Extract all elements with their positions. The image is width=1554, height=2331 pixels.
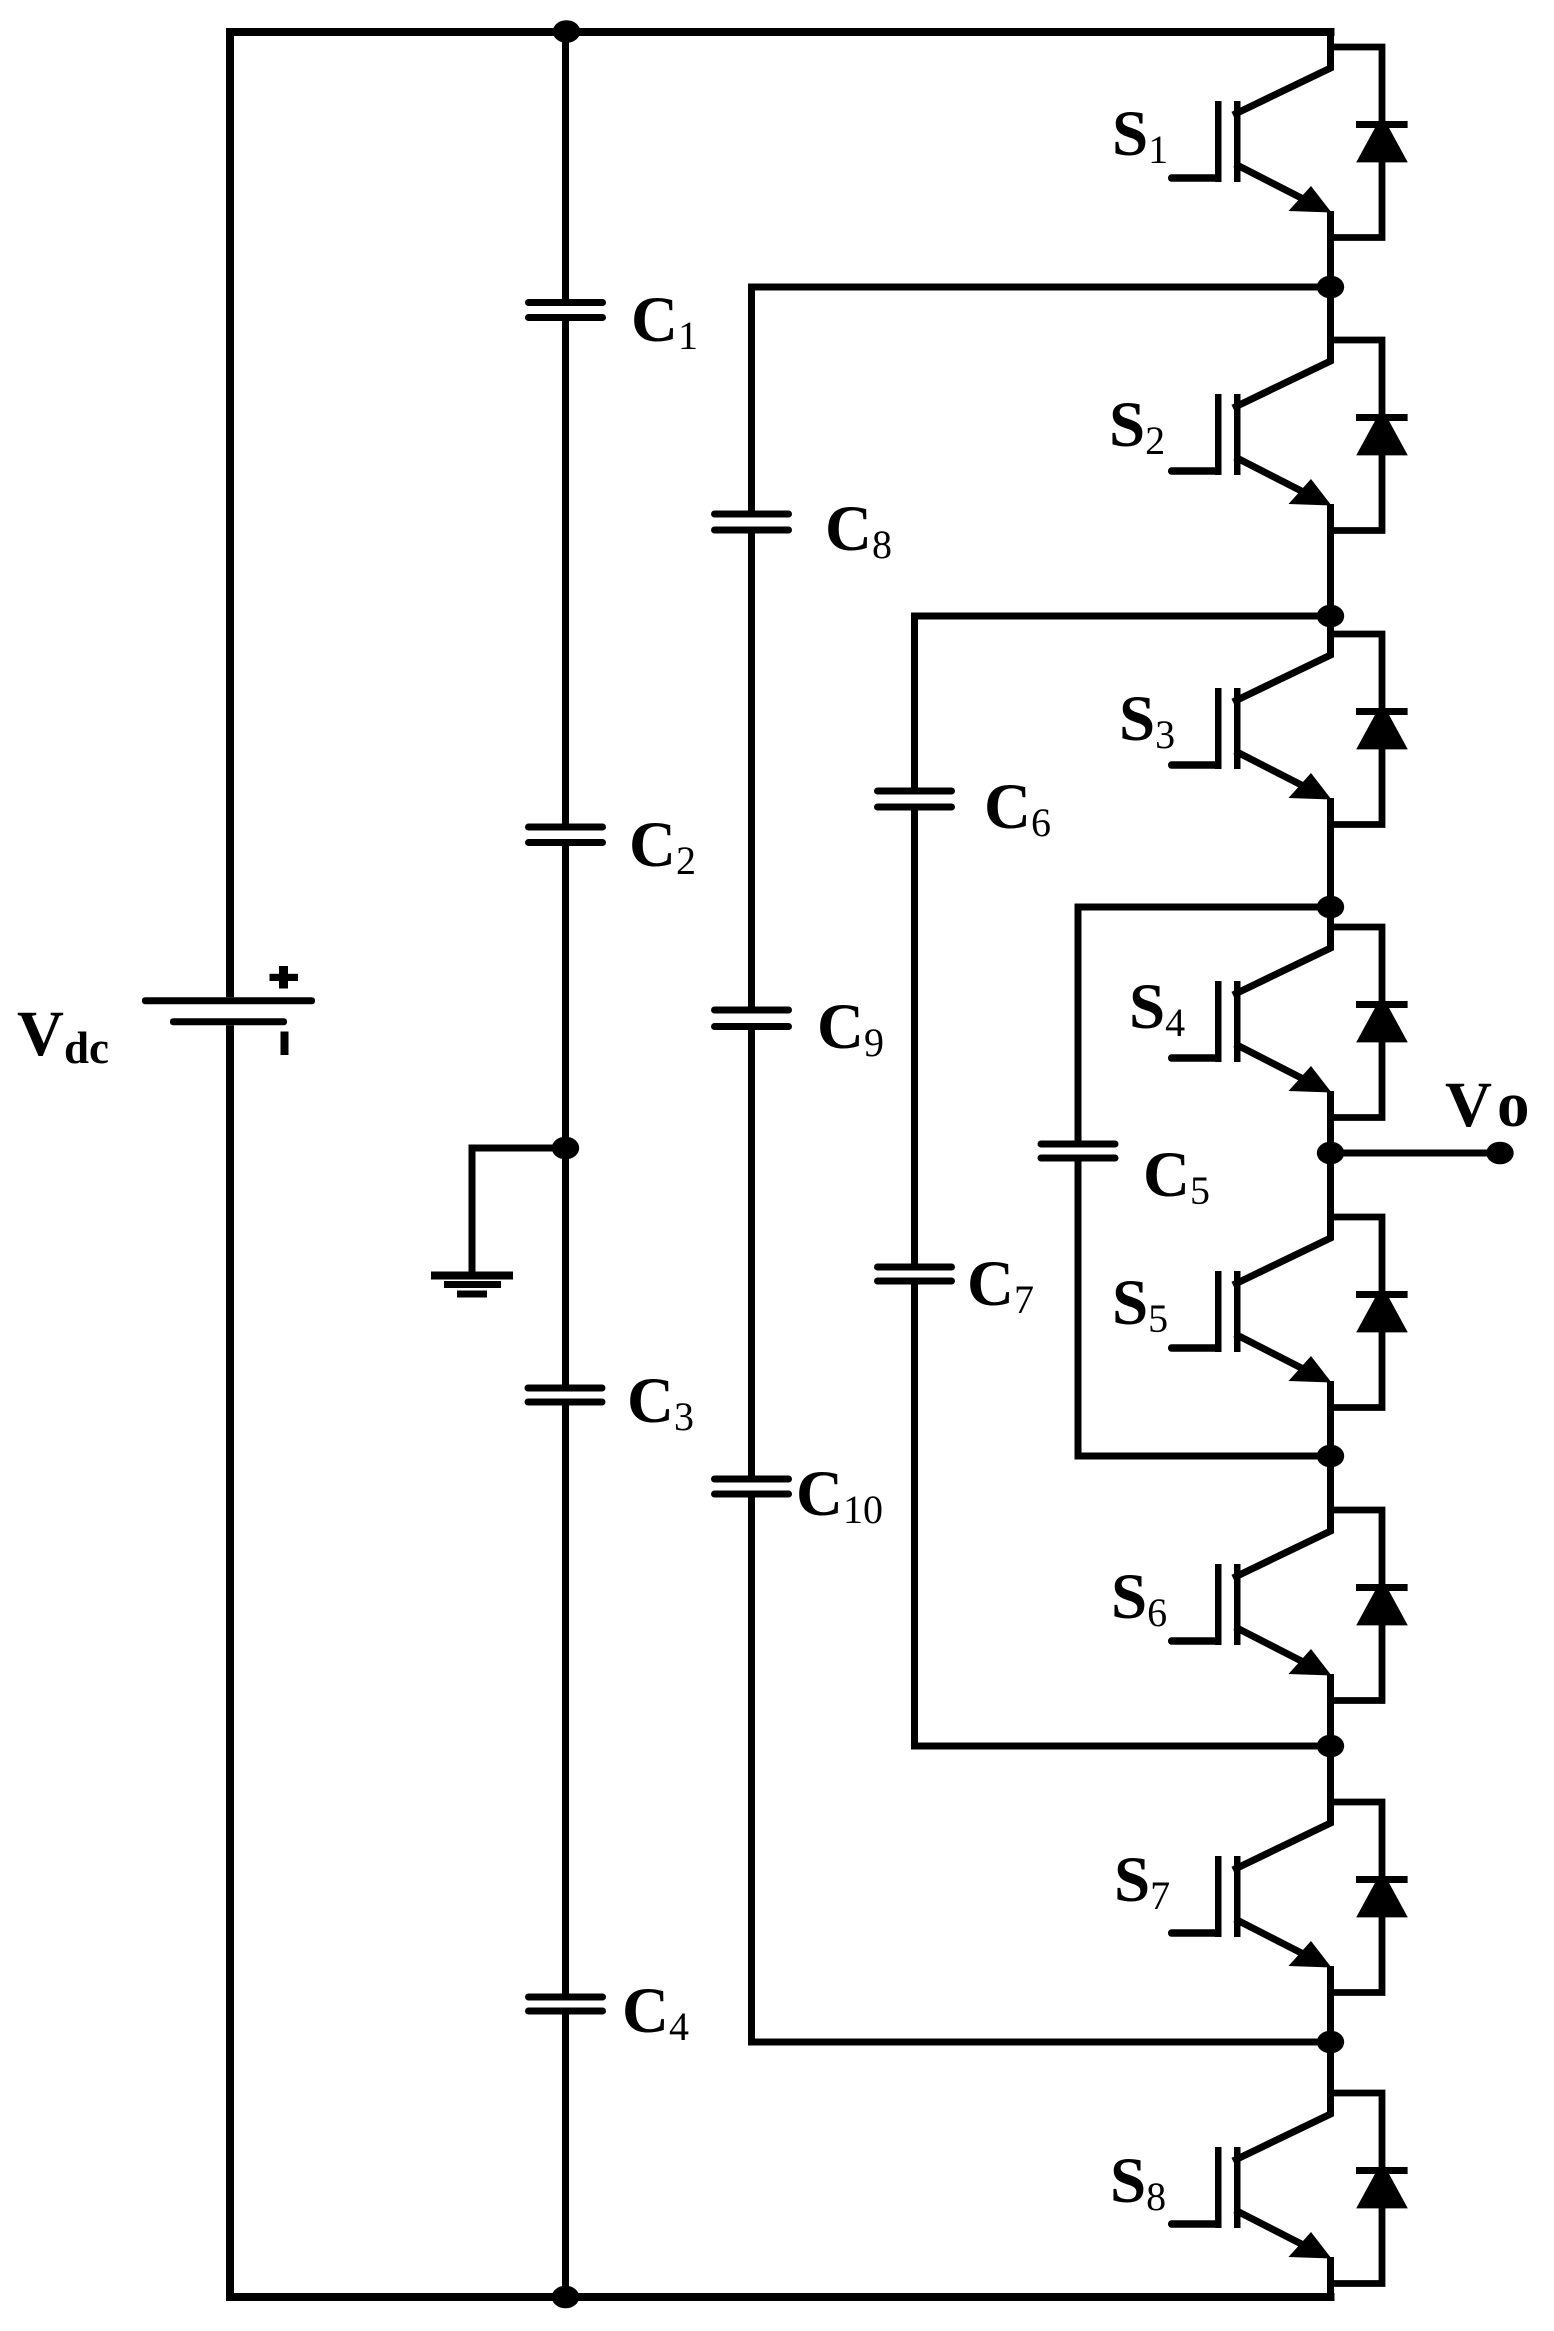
transistor S8 emitter arrowhead — [1289, 2232, 1332, 2259]
svg-text:C7: C7 — [967, 1248, 1034, 1322]
capacitor C9 top plate — [711, 1007, 792, 1014]
svg-text:S8: S8 — [1110, 2145, 1166, 2219]
transistor S3 emitter wire — [1235, 751, 1316, 793]
capacitor C6 top plate — [874, 788, 955, 795]
transistor S1 gate lead — [1168, 174, 1222, 182]
svg-text:C9: C9 — [817, 991, 884, 1065]
capacitor C3 bottom plate — [525, 1399, 606, 1406]
transistor S2 gate bar — [1215, 394, 1222, 475]
wire bus2 segment C3-to-C4 — [562, 1406, 569, 1994]
transistor S3 body bar — [1234, 688, 1241, 769]
svg-text:S7: S7 — [1114, 1844, 1170, 1918]
transistor S3 (IGBT): collector wire — [1233, 616, 1331, 702]
node S6-S7 (to C7 leg) — [1317, 1735, 1344, 1758]
wire ground horizontal from midpoint node — [469, 1145, 566, 1152]
transistor S8 gate lead — [1168, 2220, 1222, 2228]
wire bus5 segment C5-to-bottom — [1075, 1162, 1082, 1456]
diode D5 triangle — [1356, 1285, 1408, 1332]
transistor S7 gate lead — [1168, 1929, 1222, 1937]
capacitor C5 top plate — [1038, 1141, 1119, 1148]
svg-text:C6: C6 — [984, 771, 1051, 845]
svg-text:C5: C5 — [1143, 1139, 1210, 1213]
capacitor C10 bottom plate — [711, 1491, 792, 1498]
node top rail - bus2 junction — [553, 20, 580, 43]
transistor S1 (IGBT): collector wire — [1233, 32, 1331, 115]
diode D3 triangle — [1356, 702, 1408, 749]
transistor S2 emitter wire — [1235, 457, 1316, 499]
svg-text:Vo: Vo — [1445, 1069, 1529, 1141]
wire bus3 segment C10-to-bottom — [748, 1498, 755, 2043]
capacitor C7 top plate — [874, 1264, 955, 1271]
diode D3 antiparallel with S3: anode-cathode wires — [1331, 634, 1383, 712]
capacitor C5 bottom plate — [1038, 1155, 1119, 1162]
svg-text:S4: S4 — [1129, 971, 1185, 1045]
diode D6 triangle — [1356, 1578, 1408, 1625]
capacitor C3 top plate — [525, 1385, 606, 1392]
diode D4 antiparallel with S4: anode-cathode wires — [1331, 927, 1383, 1005]
svg-text:S6: S6 — [1111, 1561, 1167, 1635]
transistor S5 emitter arrowhead — [1289, 1356, 1332, 1383]
diode D7 triangle — [1356, 1870, 1408, 1917]
capacitor C4 bottom plate — [525, 2008, 606, 2015]
svg-text:C4: C4 — [622, 1975, 689, 2049]
diode D8 antiparallel with S8: anode-cathode wires — [1331, 2093, 1383, 2171]
wire bus4 top horizontal to S2-S3 node — [911, 613, 1335, 620]
diode D5 cathode bar — [1356, 1291, 1408, 1298]
svg-text:Vdc: Vdc — [17, 998, 109, 1073]
capacitor C8 top plate — [711, 511, 792, 518]
battery Vdc positive plate — [142, 997, 315, 1004]
wire bus5 segment top-to-C5 — [1075, 907, 1082, 1141]
transistor S2 (IGBT): collector wire — [1233, 287, 1331, 408]
diode D2 antiparallel with S2: anode-cathode wires — [1331, 340, 1383, 418]
wire bus3 segment C9-to-C10 — [748, 1030, 755, 1476]
node midpoint (C2-C3 junction to ground) — [552, 1137, 579, 1160]
transistor S5 body bar — [1234, 1271, 1241, 1352]
wire bus3 top horizontal to S1-S2 node — [748, 284, 1334, 291]
transistor S7 body bar — [1234, 1856, 1241, 1937]
wire left bus lower (battery to V-) — [226, 1025, 234, 2301]
capacitor C10 top plate — [711, 1476, 792, 1483]
diode D6 antiparallel with S6: anode-cathode wires — [1331, 1510, 1383, 1588]
capacitor C2 top plate — [525, 824, 606, 831]
battery Vdc negative plate — [170, 1018, 287, 1025]
transistor S4 body bar — [1234, 981, 1241, 1062]
wire bus3 bottom horizontal to S7-S8 node — [748, 2039, 1334, 2046]
svg-text:S1: S1 — [1112, 98, 1168, 172]
capacitor C8 bottom plate — [711, 527, 792, 534]
transistor S6 gate bar — [1215, 1564, 1222, 1645]
diode D6 cathode bar — [1356, 1584, 1408, 1591]
transistor S8 emitter wire — [1235, 2210, 1316, 2252]
transistor S4 gate bar — [1215, 981, 1222, 1062]
transistor S3 gate bar — [1215, 688, 1222, 769]
wire bus5 bottom horizontal to S5-S6 node — [1075, 1453, 1335, 1460]
diode D8 triangle — [1356, 2161, 1408, 2208]
diode D5 antiparallel with S5: anode-cathode wires — [1331, 1217, 1383, 1295]
wire bus4 segment C6-to-C7 — [911, 811, 918, 1264]
transistor S3 emitter arrowhead — [1289, 773, 1332, 800]
transistor S1 emitter wire — [1235, 164, 1316, 206]
transistor S7 gate bar — [1215, 1856, 1222, 1937]
svg-text:S3: S3 — [1119, 683, 1175, 757]
transistor S6 (IGBT): collector wire — [1233, 1456, 1331, 1578]
ground bar 1 — [431, 1272, 513, 1280]
node S1-S2 (to C8 leg) — [1317, 276, 1344, 299]
transistor S6 emitter arrowhead — [1289, 1649, 1332, 1676]
diode D7 cathode bar — [1356, 1876, 1408, 1883]
diode D8 cathode bar — [1356, 2167, 1408, 2174]
capacitor C9 bottom plate — [711, 1023, 792, 1030]
node Vo terminal — [1486, 1142, 1513, 1165]
wire bus2 segment top-to-C1 — [562, 30, 569, 299]
node bottom rail - bus2 junction — [552, 2286, 579, 2309]
transistor S2 body bar — [1234, 394, 1241, 475]
battery plus sign horizontal — [270, 974, 299, 981]
wire bus2 segment C2-to-C3 — [562, 846, 569, 1385]
diode D4 triangle — [1356, 995, 1408, 1042]
transistor S4 (IGBT): collector wire — [1233, 907, 1331, 995]
node S7-S8 (to C10 leg) — [1317, 2031, 1344, 2054]
transistor S5 gate lead — [1168, 1344, 1222, 1352]
transistor S1 emitter arrowhead — [1289, 186, 1332, 213]
diode D3 cathode bar — [1356, 708, 1408, 715]
battery plus sign vertical — [279, 966, 288, 989]
transistor S4 emitter arrowhead — [1289, 1066, 1332, 1093]
wire bus4 segment C7-to-bottom — [911, 1285, 918, 1747]
capacitor C1 top plate — [525, 299, 606, 306]
svg-text:C3: C3 — [627, 1365, 694, 1439]
diode D2 cathode bar — [1356, 414, 1408, 421]
svg-text:C10: C10 — [796, 1458, 883, 1532]
node S3-S4 (to C5 leg) — [1317, 896, 1344, 919]
transistor S5 emitter wire — [1235, 1334, 1316, 1376]
wire bus2 segment C1-to-C2 — [562, 321, 569, 824]
wire left bus upper (V+ to battery) — [226, 28, 234, 997]
node S4-S5 (output) — [1317, 1142, 1344, 1165]
diode D1 antiparallel with S1: anode-cathode wires — [1331, 47, 1383, 125]
transistor S6 emitter wire — [1235, 1627, 1316, 1669]
diode D7 antiparallel with S7: anode-cathode wires — [1331, 1802, 1383, 1880]
diode D4 cathode bar — [1356, 1001, 1408, 1008]
transistor S8 gate bar — [1215, 2147, 1222, 2228]
transistor S8 (IGBT): collector wire — [1233, 2042, 1331, 2161]
transistor S6 gate lead — [1168, 1637, 1222, 1645]
svg-text:C1: C1 — [631, 284, 698, 358]
wire bottom rail from V- to S8 emitter — [226, 2293, 1335, 2301]
transistor S4 gate lead — [1168, 1054, 1222, 1062]
capacitor C2 bottom plate — [525, 839, 606, 846]
wire top rail from V+ to S1 collector — [226, 28, 1335, 36]
wire bus2 segment C4-to-bottom — [562, 2015, 569, 2302]
transistor S7 (IGBT): collector wire — [1233, 1746, 1331, 1870]
transistor S8 body bar — [1234, 2147, 1241, 2228]
transistor S3 gate lead — [1168, 761, 1222, 769]
transistor S2 gate lead — [1168, 467, 1222, 475]
capacitor C6 bottom plate — [874, 804, 955, 811]
transistor S6 body bar — [1234, 1564, 1241, 1645]
wire bus5 top horizontal to S3-S4 node — [1075, 904, 1335, 911]
ground bar 3 — [457, 1291, 487, 1298]
diode D2 triangle — [1356, 408, 1408, 455]
transistor S1 body bar — [1234, 101, 1241, 182]
transistor S7 emitter arrowhead — [1289, 1941, 1332, 1968]
capacitor C7 bottom plate — [874, 1278, 955, 1285]
transistor S4 emitter wire — [1235, 1044, 1316, 1086]
transistor S2 emitter arrowhead — [1289, 479, 1332, 506]
node S5-S6 (to C5 leg) — [1317, 1445, 1344, 1468]
wire bus3 segment C8-to-C9 — [748, 534, 755, 1007]
diode D1 cathode bar — [1356, 121, 1408, 128]
node S2-S3 (to C6 leg) — [1317, 605, 1344, 628]
diode D1 triangle — [1356, 115, 1408, 162]
wire bus3 segment top-to-C8 — [748, 286, 755, 511]
capacitor C4 top plate — [525, 1994, 606, 2001]
transistor S1 gate bar — [1215, 101, 1222, 182]
transistor S7 emitter wire — [1235, 1919, 1316, 1961]
transistor S5 gate bar — [1215, 1271, 1222, 1352]
wire bus4 bottom horizontal to S6-S7 node — [911, 1743, 1335, 1750]
capacitor C1 bottom plate — [525, 314, 606, 321]
svg-text:S2: S2 — [1109, 389, 1165, 463]
transistor S5 (IGBT): collector wire — [1233, 1153, 1331, 1285]
svg-text:C8: C8 — [825, 493, 892, 567]
ground bar 2 — [444, 1281, 501, 1288]
svg-text:C2: C2 — [629, 809, 696, 883]
wire bus4 segment top-to-C6 — [911, 616, 918, 788]
wire output Vo from S4-S5 node — [1331, 1150, 1501, 1157]
wire ground vertical drop — [469, 1145, 476, 1276]
battery minus sign — [281, 1032, 289, 1056]
svg-text:S5: S5 — [1112, 1267, 1168, 1341]
